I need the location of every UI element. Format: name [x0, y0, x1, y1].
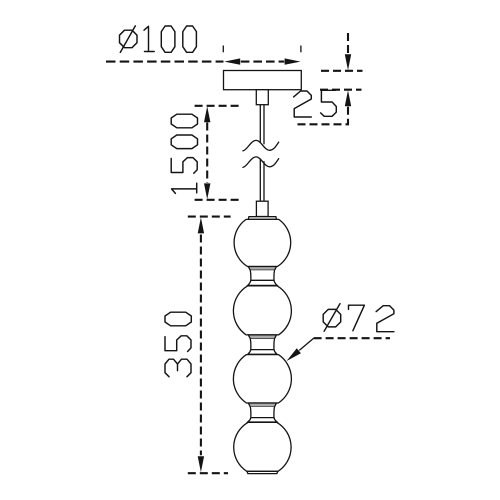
- neck: gray ring band: [248, 267, 276, 271]
- dim 1500: vertical dashed line with arrows: [206, 123, 208, 184]
- leader Ø72: arrowhead on sphere 3: [287, 348, 301, 361]
- dim 25: top extension dashed line: [321, 70, 363, 72]
- cap band at bottom of sphere 4: [247, 471, 278, 473]
- neck: flared base ring: [248, 280, 277, 285]
- dim 1500: top extension dashed line: [195, 105, 241, 107]
- top connector stem below canopy: [256, 90, 268, 105]
- leader Ø72: solid diagonal: [299, 338, 313, 350]
- dim 25: upper vertical dashed + down arrow: [347, 33, 349, 54]
- neck: waist cylinder: [250, 339, 274, 350]
- sphere 4: [234, 422, 291, 471]
- label 25: [294, 91, 312, 117]
- neck: flared base ring: [248, 418, 277, 422]
- dim 350: top extension dashed line: [188, 216, 231, 218]
- sphere 3: [233, 355, 291, 403]
- label Ø100: [120, 26, 138, 53]
- neck: gray ring band: [248, 335, 276, 339]
- label 1500 (rotated): [172, 183, 197, 193]
- dim 1500: bottom extension dashed line: [195, 199, 241, 201]
- neck: waist cylinder: [250, 407, 274, 418]
- dim 25: lower arrow up + dashed dogleg under text: [345, 90, 351, 106]
- dim 350: bottom extension dashed line: [188, 472, 228, 474]
- break squiggle 1: [243, 140, 279, 151]
- dim 350: vertical dashed line with arrows: [200, 235, 202, 456]
- dim Ø100: extension ticks: [222, 46, 224, 53]
- cap band on top of sphere 1: [248, 217, 276, 220]
- canopy Ø100 ceiling disc: [224, 71, 302, 90]
- sphere 2: [233, 286, 291, 335]
- label 350 (rotated): [165, 359, 191, 377]
- leader Ø72: dashed horizontal under text: [314, 337, 390, 339]
- bottom connector block above first sphere: [256, 201, 268, 216]
- dim Ø100: left arrow: [224, 58, 240, 64]
- break squiggle 2: [243, 157, 279, 168]
- neck: flared base ring: [248, 350, 277, 355]
- dim 25: bottom extension dashed line: [320, 89, 362, 91]
- neck: gray ring band: [248, 403, 276, 407]
- label Ø72: [323, 304, 341, 332]
- dim Ø100: dashed dimension line: [106, 61, 224, 63]
- dim Ø100: right arrow: [285, 58, 301, 64]
- sphere 1: [234, 219, 291, 266]
- neck: waist cylinder: [250, 270, 274, 280]
- cable lower segment (double line): [259, 159, 261, 201]
- cable upper segment (double line): [259, 105, 261, 142]
